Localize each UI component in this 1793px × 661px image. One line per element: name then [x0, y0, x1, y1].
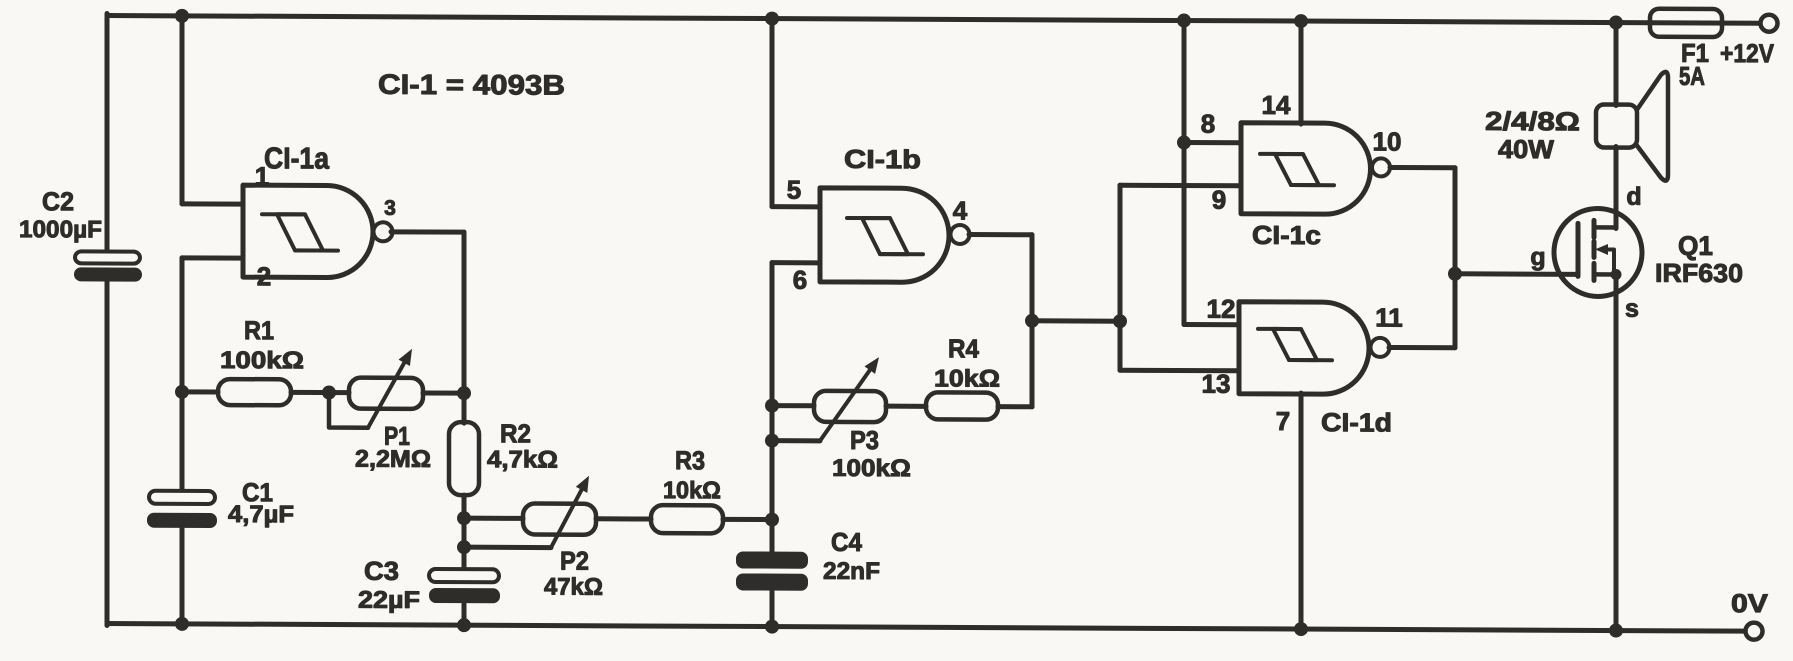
svg-text:7: 7	[1276, 406, 1290, 436]
capacitor C1 4,7uF negative plate	[147, 513, 217, 528]
node pin3 column / R1-P1 row junction	[457, 386, 471, 400]
Q1 gate electrode bar	[1576, 223, 1581, 276]
wire C1 to bottom rail	[180, 528, 185, 624]
trimpot P2 body	[523, 503, 596, 534]
node pin8 junction	[1177, 135, 1191, 149]
capacitor C3 22uF positive plate	[429, 569, 499, 582]
wire pin 11 output horizontal	[1389, 345, 1455, 350]
node top rail / pin14 junction	[1294, 14, 1308, 28]
svg-text:C2: C2	[42, 186, 74, 216]
svg-text:22µF: 22µF	[358, 587, 420, 614]
svg-text:R4: R4	[948, 333, 979, 363]
svg-text:2,2MΩ: 2,2MΩ	[355, 446, 431, 473]
wire pin 5 vertical drop	[770, 19, 775, 207]
gate CI-1d schmitt hysteresis symbol	[1258, 329, 1332, 360]
wire pin 2 horizontal from CI-1a	[182, 255, 243, 260]
resistor R1 body	[218, 379, 291, 405]
resistor R3 body	[651, 505, 723, 533]
wire left branch lower segment (C2 to bottom rail)	[105, 280, 110, 625]
wire R2-column to P2	[464, 516, 523, 521]
wire pin 6 column down to C4	[770, 263, 775, 554]
wire R3 to C4 column	[723, 517, 772, 522]
svg-text:CI-1d: CI-1d	[1321, 407, 1392, 437]
wire MOSFET gate lead	[1455, 271, 1578, 277]
capacitor C4 22nF upper plate	[736, 551, 808, 568]
wire pin2-branch to R1	[182, 389, 218, 394]
node pin6 column / P3 wiper junction	[765, 434, 779, 448]
svg-text:CI-1a: CI-1a	[264, 142, 329, 175]
wire input column vertical (pin9 to pin13)	[1118, 185, 1123, 370]
node C1 / bottom rail junction	[175, 617, 189, 631]
gate CI-1d output inversion bubble	[1371, 338, 1390, 357]
Q1 channel bar drain segment	[1592, 220, 1597, 237]
resistor R4 body	[926, 392, 998, 419]
node pin2 branch / R1 junction	[175, 385, 189, 399]
node output-4 column / crossover junction	[1025, 314, 1039, 328]
node output tie / gate lead junction	[1448, 267, 1462, 281]
node C3 / bottom rail junction	[457, 618, 471, 632]
speaker LS1 cone	[1637, 72, 1668, 181]
wire pin 12 horizontal into CI-1d	[1184, 322, 1239, 327]
resistor R2 body	[449, 422, 479, 495]
wire pin3 column upper (to R2)	[462, 232, 467, 423]
node pin6 column / R3 row junction	[765, 513, 779, 527]
svg-text:4,7kΩ: 4,7kΩ	[487, 446, 558, 473]
trimpot P3 wiper arrow	[820, 370, 870, 441]
wire output tie vertical	[1453, 168, 1458, 348]
wire pin 1 horizontal into CI-1a	[182, 201, 243, 206]
wire P1 to pin3 branch	[423, 390, 464, 395]
svg-text:IRF630: IRF630	[1655, 258, 1743, 288]
node top rail / pin5 branch junction	[765, 12, 779, 26]
Q1 body connection with arrow	[1604, 249, 1614, 274]
wire pin 13 horizontal into CI-1d	[1120, 368, 1239, 374]
wire pin 10 output horizontal	[1390, 165, 1455, 170]
wire pin 4 output horizontal	[969, 232, 1032, 237]
trimpot P3 body	[814, 391, 886, 422]
svg-text:s: s	[1625, 295, 1639, 323]
node Q1 source terminal	[1611, 269, 1622, 280]
node top rail / pin 1 branch junction	[175, 9, 189, 23]
gate CI-1c output inversion bubble	[1372, 158, 1390, 176]
speaker LS1 magnet square	[1596, 104, 1637, 147]
svg-text:5A: 5A	[1679, 61, 1705, 91]
svg-text:C4: C4	[831, 527, 862, 557]
svg-text:CI-1 = 4093B: CI-1 = 4093B	[378, 69, 565, 101]
Q1 source internal lead	[1594, 272, 1616, 277]
svg-text:10kΩ: 10kΩ	[663, 477, 721, 504]
terminal 0V	[1746, 623, 1763, 640]
svg-text:10kΩ: 10kΩ	[934, 365, 1000, 392]
svg-text:3: 3	[384, 197, 396, 220]
svg-text:100kΩ: 100kΩ	[220, 347, 304, 374]
svg-text:11: 11	[1375, 302, 1402, 332]
wire R1 to P1	[291, 390, 349, 395]
wire P2 wiper tie	[464, 545, 551, 550]
wire pin 1 vertical drop	[180, 16, 185, 204]
wire left branch upper segment (top rail to C2)	[105, 13, 110, 252]
svg-text:1000µF: 1000µF	[19, 216, 102, 243]
svg-text:+12V: +12V	[1720, 38, 1775, 68]
svg-text:14: 14	[1262, 90, 1291, 120]
svg-text:10: 10	[1373, 126, 1402, 156]
wire R2 to C3	[462, 495, 467, 571]
wire C4 to bottom rail	[770, 591, 775, 627]
svg-text:P3: P3	[850, 425, 879, 455]
wire crossover horizontal to input column	[1032, 318, 1120, 323]
wire top rail to speaker	[1614, 23, 1619, 106]
capacitor C3 22uF negative plate	[429, 588, 500, 603]
svg-text:R1: R1	[244, 315, 274, 345]
svg-text:g: g	[1530, 243, 1545, 271]
node R2 column / P2 wiper junction	[457, 540, 471, 554]
svg-text:d: d	[1626, 183, 1641, 211]
node source / bottom rail junction	[1609, 623, 1623, 637]
gate CI-1a schmitt hysteresis symbol	[262, 214, 338, 250]
svg-text:4,7µF: 4,7µF	[228, 501, 294, 528]
wire Q1 source to bottom rail	[1614, 275, 1619, 631]
wire P3 wiper tie	[772, 438, 820, 443]
wire pin 8 vertical drop	[1182, 21, 1187, 325]
wire P1 wiper tie	[329, 393, 368, 428]
gate CI-1b output inversion bubble	[951, 225, 970, 244]
svg-text:47kΩ: 47kΩ	[544, 574, 603, 601]
wire pin 6 horizontal from CI-1b	[772, 260, 820, 265]
terminal +12V	[1761, 15, 1778, 32]
svg-text:2: 2	[257, 261, 271, 291]
Q1 channel bar body segment	[1592, 241, 1597, 257]
gate CI-1c schmitt hysteresis symbol	[1260, 154, 1334, 185]
svg-text:12: 12	[1207, 294, 1236, 324]
trimpot P2 wiper arrow	[551, 490, 582, 548]
svg-text:0V: 0V	[1731, 588, 1769, 618]
node top rail / pin8 branch junction	[1177, 13, 1191, 27]
wire C3 to bottom rail	[462, 603, 467, 625]
node top rail / drain branch junction	[1609, 15, 1623, 29]
wire output-4 column vertical	[1030, 235, 1035, 407]
svg-text:22nF: 22nF	[823, 558, 880, 585]
Q1 channel bar source segment	[1592, 263, 1597, 280]
svg-text:CI-1b: CI-1b	[844, 144, 921, 174]
wire pin 5 horizontal into CI-1b	[772, 204, 820, 209]
wire 0V bottom rail	[107, 623, 1746, 631]
NAND gate CI-1a body	[243, 185, 373, 278]
node C4 / bottom rail junction	[765, 620, 779, 634]
svg-text:CI-1c: CI-1c	[1252, 220, 1321, 250]
gate CI-1b schmitt hysteresis symbol	[847, 218, 923, 254]
svg-text:9: 9	[1212, 185, 1226, 215]
svg-text:1: 1	[255, 161, 269, 191]
trimpot P1 wiper arrow	[368, 363, 404, 428]
svg-text:2/4/8Ω: 2/4/8Ω	[1485, 106, 1580, 136]
gate CI-1a output inversion bubble	[374, 222, 393, 241]
capacitor C2 1000uF negative plate	[74, 267, 142, 281]
NAND gate CI-1d body	[1239, 302, 1369, 395]
node pin6 column / P3 row junction	[765, 399, 779, 413]
capacitor C4 22nF lower plate	[736, 573, 808, 590]
fuse F1 body	[1650, 9, 1722, 37]
wire pin 9 horizontal into CI-1c	[1120, 183, 1241, 189]
wire pin 3 output horizontal	[391, 229, 464, 234]
wire pin 14 supply drop to CI-1c	[1299, 21, 1304, 124]
wire P2 to R3	[596, 516, 651, 521]
transistor Q1 IRF630 envelope circle	[1554, 208, 1642, 296]
node R1 / P1 wiper junction	[322, 386, 336, 400]
node R2 column / P2 row junction	[457, 511, 471, 525]
wire pin 8 horizontal into CI-1c	[1184, 140, 1241, 145]
capacitor C2 1000uF positive plate	[75, 251, 140, 263]
wire speaker to Q1 drain	[1614, 147, 1619, 229]
svg-text:13: 13	[1202, 369, 1231, 399]
wire pin 2 vertical down to C1	[180, 258, 185, 492]
node pin7 / bottom rail junction	[1294, 622, 1308, 636]
svg-text:5: 5	[787, 175, 801, 205]
node input column junction	[1113, 314, 1127, 328]
svg-text:4: 4	[953, 195, 968, 225]
svg-text:100kΩ: 100kΩ	[832, 455, 911, 482]
svg-text:R3: R3	[675, 445, 705, 475]
wire pin6-column to P3	[772, 403, 814, 408]
wire R4 to output-4 column	[998, 404, 1032, 409]
svg-text:P2: P2	[560, 546, 589, 576]
capacitor C1 4,7uF positive plate	[149, 491, 215, 504]
trimpot P1 body	[349, 378, 423, 409]
svg-text:C3: C3	[364, 556, 399, 586]
svg-text:Q1: Q1	[1678, 231, 1713, 261]
svg-text:40W: 40W	[1498, 134, 1554, 164]
NAND gate CI-1c body	[1241, 123, 1371, 215]
wire P3 to R4	[886, 404, 926, 409]
Q1 drain internal lead	[1594, 225, 1616, 230]
svg-text:R2: R2	[500, 418, 531, 448]
wire +12V top supply rail	[107, 15, 1761, 23]
svg-text:8: 8	[1201, 109, 1215, 139]
wire pin 7 from CI-1d to bottom rail	[1299, 393, 1304, 629]
NAND gate CI-1b body	[820, 188, 949, 283]
svg-text:6: 6	[793, 265, 807, 295]
